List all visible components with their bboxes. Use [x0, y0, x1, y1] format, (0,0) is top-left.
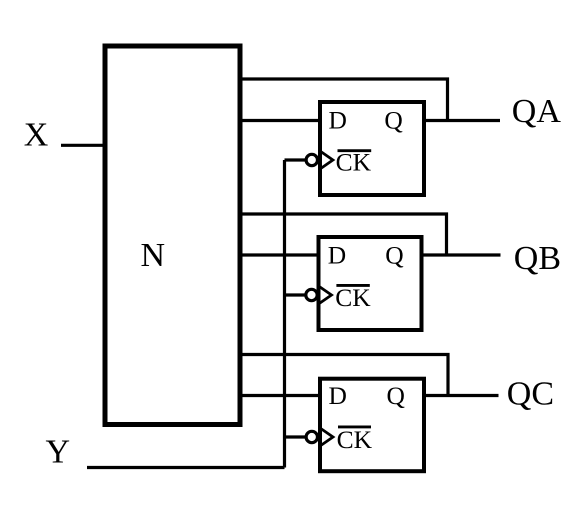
svg-text:N: N: [141, 237, 166, 274]
svg-text:QB: QB: [514, 240, 561, 277]
clock bubble of FF2: [306, 289, 317, 300]
svg-text:QA: QA: [512, 93, 562, 130]
wire clock vertical bus: [283, 160, 286, 468]
svg-text:Q: Q: [385, 241, 403, 270]
svg-text:Q: Q: [387, 381, 405, 410]
clock bubble of FF1: [306, 154, 317, 165]
clock triangle of FF3: [320, 428, 333, 446]
wire X input: [61, 144, 105, 147]
wire Q3 output to QC: [423, 394, 499, 397]
flip-flop FF2 box: [319, 237, 422, 330]
wire feedback QB to N: [240, 214, 447, 255]
svg-text:D: D: [328, 241, 346, 270]
svg-text:QC: QC: [507, 376, 554, 413]
wire N to D of FF1: [240, 119, 321, 122]
svg-text:Y: Y: [46, 434, 71, 471]
wire feedback QA to N (top): [240, 79, 448, 121]
wire Q1 output to QA: [423, 119, 500, 122]
wire clock branch to FF1: [285, 158, 307, 161]
svg-text:D: D: [329, 105, 347, 134]
flip-flop FF3 box: [320, 379, 424, 472]
clock triangle of FF2: [319, 286, 332, 304]
svg-text:CK: CK: [335, 283, 371, 312]
combinational block N: [105, 46, 240, 425]
wire clock branch to FF2: [285, 293, 306, 296]
svg-text:X: X: [24, 117, 49, 154]
wire N to D of FF2: [240, 253, 320, 256]
wire Q2 output to QB: [421, 253, 501, 256]
wire feedback QC to N: [240, 355, 448, 396]
wire N to D of FF3: [240, 394, 321, 397]
clock triangle of FF1: [320, 151, 333, 169]
svg-text:D: D: [329, 381, 347, 410]
overline of CK FF3: [338, 425, 371, 428]
wire Y input horizontal: [87, 466, 285, 469]
clock bubble of FF3: [306, 431, 317, 442]
svg-text:CK: CK: [337, 425, 373, 454]
overline of CK FF1: [338, 149, 372, 152]
svg-text:Q: Q: [384, 105, 402, 134]
overline of CK FF2: [336, 284, 369, 287]
flip-flop FF1 box: [320, 102, 424, 195]
wire clock branch to FF3: [285, 435, 307, 438]
